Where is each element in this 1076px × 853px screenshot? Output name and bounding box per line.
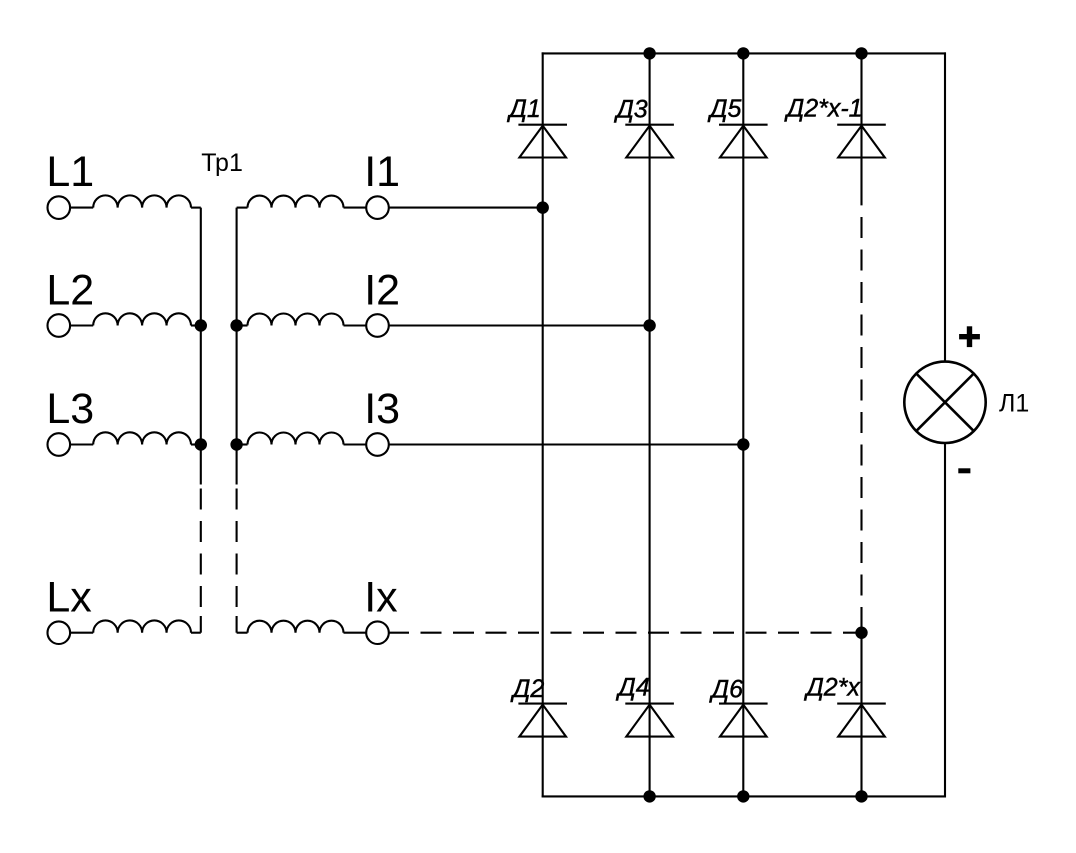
diode D5	[719, 125, 768, 158]
wire I2 coil to terminal	[344, 324, 367, 326]
wire L1 terminal to coil	[70, 207, 93, 209]
terminal I1	[366, 196, 389, 219]
junction bottom bus / D4 column	[643, 790, 655, 802]
primary winding L1 coil	[93, 195, 191, 207]
wire primary bus (solid lower)	[200, 616, 202, 633]
wire I1 coil to terminal	[344, 207, 367, 209]
terminal L3	[48, 433, 71, 456]
svg-text:Lx: Lx	[46, 573, 92, 621]
junction primary bus / L3	[195, 438, 207, 450]
junction top bus / D2*x-1 column	[855, 47, 867, 59]
wire L3 coil to primary bus	[191, 443, 201, 445]
svg-text:Ix: Ix	[364, 573, 398, 621]
wire secondary bus (dashed)	[236, 489, 238, 610]
wire secondary bus (solid upper)	[236, 208, 238, 485]
diode D2*x	[837, 704, 886, 737]
secondary winding I3 coil	[248, 433, 344, 445]
svg-text:Д2: Д2	[510, 675, 545, 703]
svg-text:Д3: Д3	[613, 96, 648, 124]
primary winding L2 coil	[93, 313, 191, 325]
junction node A (I1 / D1 column)	[537, 201, 549, 213]
wire secondary bus to I2 coil	[237, 324, 248, 326]
wire D3/D4 column	[649, 52, 651, 797]
svg-text:Д2*x-1: Д2*x-1	[784, 95, 863, 123]
junction node D (Ix / D2*x column)	[855, 627, 867, 639]
wire I3 coil to terminal	[344, 443, 367, 445]
secondary winding Ix coil	[248, 621, 344, 633]
wire lamp to bottom bus	[944, 443, 946, 797]
wire L2 terminal to coil	[70, 324, 93, 326]
junction node B (I2 / D3 column)	[643, 319, 655, 331]
terminal Ix	[366, 621, 389, 644]
terminal I2	[366, 314, 389, 337]
junction secondary bus / I3	[230, 438, 242, 450]
diode D3	[625, 125, 674, 158]
diode D2	[518, 704, 567, 737]
wire L3 terminal to coil	[70, 443, 93, 445]
diode D6	[719, 704, 768, 737]
wire D2*x column (solid bottom)	[860, 633, 862, 798]
junction primary bus / L2	[195, 319, 207, 331]
diode D4	[625, 704, 674, 737]
junction secondary bus / I2	[230, 319, 242, 331]
svg-text:L1: L1	[46, 148, 94, 196]
wire positive top bus	[542, 52, 946, 54]
wire Lx terminal to coil	[70, 632, 93, 634]
wire D2*x column (solid top)	[860, 52, 862, 205]
diode D1	[518, 125, 567, 158]
secondary winding I2 coil	[248, 314, 344, 326]
terminal I3	[366, 433, 389, 456]
wire L2 coil to primary bus	[191, 324, 201, 326]
wire I3 to node C	[389, 443, 744, 445]
label - polarity	[958, 468, 970, 473]
wire secondary bus (solid lower)	[236, 616, 238, 633]
junction node C (I3 / D5 column)	[737, 438, 749, 450]
svg-text:L3: L3	[46, 385, 94, 433]
wire L1 coil to primary bus	[191, 207, 201, 209]
junction bottom bus / D2*x column	[855, 790, 867, 802]
wire top bus to lamp	[944, 52, 946, 361]
wire I2 to node B	[389, 324, 650, 326]
label + polarity	[959, 326, 980, 347]
wire Lx coil to primary bus	[191, 632, 201, 634]
wire secondary bus to I3 coil	[237, 443, 248, 445]
diode D2*x-1	[837, 125, 886, 158]
svg-text:Д4: Д4	[615, 674, 650, 702]
wire Ix to node D (solid stub)	[389, 632, 409, 634]
svg-text:I3: I3	[364, 385, 400, 433]
wire primary bus (dashed)	[200, 489, 202, 610]
svg-text:Д5: Д5	[707, 95, 742, 123]
svg-text:Д1: Д1	[506, 95, 541, 123]
svg-text:I2: I2	[364, 266, 400, 314]
wire secondary bus to I1 coil	[237, 207, 248, 209]
lamp L1	[904, 362, 985, 443]
terminal L2	[48, 314, 71, 337]
wire secondary bus to Ix coil	[237, 632, 248, 634]
terminal Lx	[48, 621, 71, 644]
wire Ix to node D (dashed)	[421, 632, 862, 634]
junction top bus / D5 column	[737, 47, 749, 59]
wire D2*x column (dashed middle)	[860, 217, 862, 633]
junction top bus / D3 column	[643, 47, 655, 59]
svg-text:Л1: Л1	[999, 390, 1029, 418]
terminal L1	[48, 196, 71, 219]
wire D1/D2 column	[542, 52, 544, 797]
svg-text:Д6: Д6	[709, 676, 744, 704]
wire I1 to node A	[389, 207, 543, 209]
wire primary bus (solid upper)	[200, 208, 202, 485]
secondary winding I1 coil	[248, 196, 344, 208]
wire Ix coil to terminal	[344, 632, 367, 634]
primary winding L3 coil	[93, 432, 191, 444]
primary winding Lx coil	[93, 620, 191, 632]
wire negative bottom bus	[542, 795, 946, 797]
wire D5/D6 column	[742, 52, 744, 797]
svg-text:Тр1: Тр1	[201, 149, 243, 177]
svg-text:I1: I1	[364, 148, 400, 196]
svg-text:L2: L2	[46, 266, 94, 314]
svg-text:Д2*x: Д2*x	[803, 674, 861, 702]
junction bottom bus / D6 column	[737, 790, 749, 802]
